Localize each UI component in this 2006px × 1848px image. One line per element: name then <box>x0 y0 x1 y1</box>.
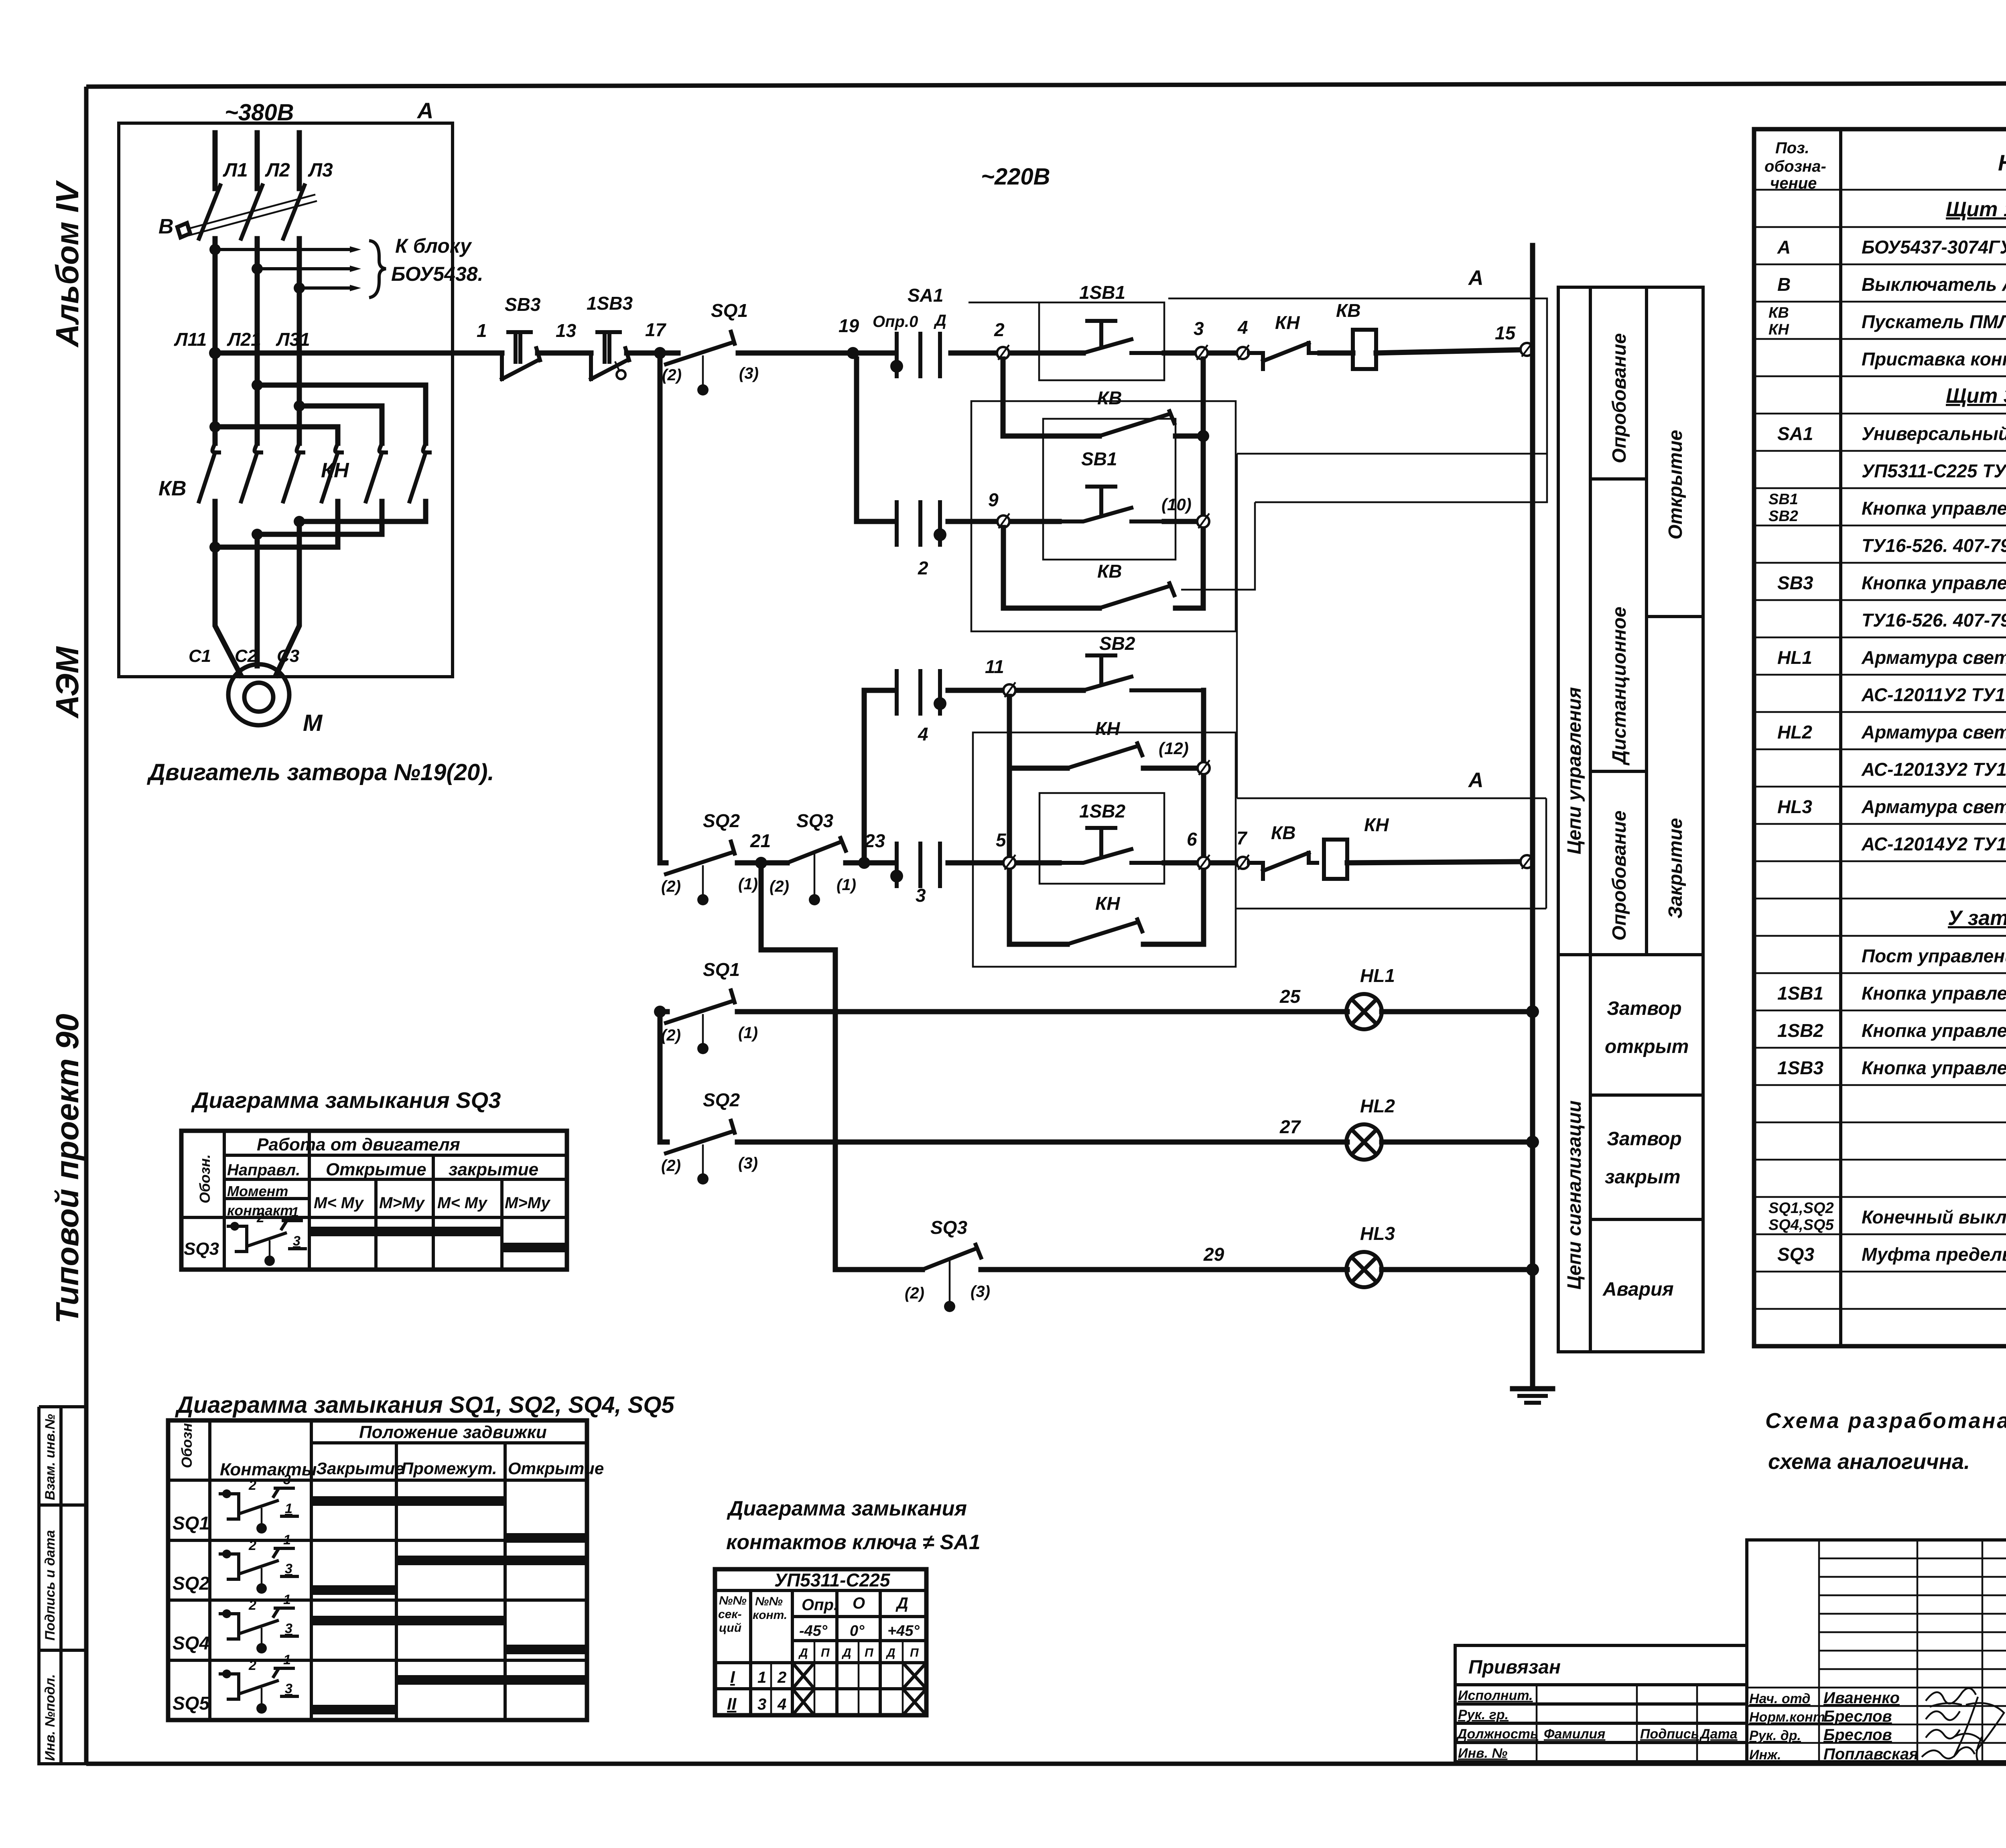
svg-text:Бреслов: Бреслов <box>1823 1708 1892 1725</box>
svg-text:3: 3 <box>285 1561 292 1576</box>
crossover wire phase3 to KN <box>299 406 382 443</box>
svg-text:чение: чение <box>1770 174 1817 192</box>
svg-text:SQ2: SQ2 <box>703 810 740 831</box>
limit switch SQ2 (signal) <box>666 1121 735 1153</box>
svg-text:25: 25 <box>1279 986 1301 1007</box>
svg-text:Двигатель затвора №19(20).: Двигатель затвора №19(20). <box>146 759 494 785</box>
svg-text:~220В: ~220В <box>981 164 1050 190</box>
SQ3 closed bar 2 <box>502 1243 567 1252</box>
svg-text:(1): (1) <box>837 876 856 894</box>
circuit classification box <box>1558 287 1703 1352</box>
contactor KN contact 1 <box>322 443 342 501</box>
svg-text:27: 27 <box>1279 1116 1301 1137</box>
svg-text:3: 3 <box>757 1696 766 1713</box>
wire SQ1 to node19 <box>738 351 893 356</box>
circuit breaker B contact 2 <box>241 185 262 239</box>
closing rung from VL1 <box>660 353 666 863</box>
power section enclosure box <box>119 123 453 677</box>
signal rung HL2 from VL1 <box>660 1012 667 1142</box>
svg-text:Авария: Авария <box>1602 1279 1674 1300</box>
SQ4 contact glyph <box>222 1609 231 1618</box>
pushbutton SB3 <box>502 332 540 379</box>
svg-text:(3): (3) <box>738 1154 758 1172</box>
svg-text:Подпись: Подпись <box>1640 1726 1699 1742</box>
junction dot crossover 1 <box>209 421 221 432</box>
pushbutton 1SB3 <box>591 332 629 379</box>
svg-text:Взам. инв.№: Взам. инв.№ <box>43 1414 58 1500</box>
svg-text:УП5311-С225 ТУ16-524. 074: УП5311-С225 ТУ16-524. 074-75 <box>1862 460 2006 481</box>
svg-text:3: 3 <box>1194 318 1204 339</box>
svg-text:Положение задвижки: Положение задвижки <box>359 1422 547 1442</box>
svg-text:контактов ключа ≠ SА1: контактов ключа ≠ SА1 <box>726 1531 981 1554</box>
svg-text:КВ: КВ <box>1271 822 1296 843</box>
tap wire 2 to BOU5438 <box>257 267 350 270</box>
svg-text:В: В <box>1777 274 1791 295</box>
component table row lines <box>1754 190 2006 1309</box>
svg-text:Затвор: Затвор <box>1607 1128 1682 1150</box>
svg-text:29: 29 <box>1203 1244 1224 1265</box>
svg-text:А: А <box>1777 237 1791 258</box>
svg-text:3: 3 <box>293 1233 300 1249</box>
wire 1SB2 to node6 node7 <box>1164 860 1240 866</box>
junction dot L11 node <box>209 347 221 359</box>
svg-text:КН: КН <box>1095 893 1120 914</box>
drawing frame top border <box>86 83 2006 87</box>
pushbutton SB2 <box>1083 655 1204 690</box>
svg-text:Должность: Должность <box>1456 1726 1538 1742</box>
pushbutton 1SB2 <box>1059 828 1164 863</box>
svg-text:+45°: +45° <box>887 1623 920 1639</box>
svg-text:Исполнит.: Исполнит. <box>1458 1688 1533 1703</box>
svg-text:ций: ций <box>719 1621 741 1635</box>
svg-text:6: 6 <box>1187 829 1197 850</box>
svg-text:П: П <box>865 1646 874 1659</box>
svg-text:М< Му: М< Му <box>314 1194 364 1212</box>
contactor KV contact 1 <box>199 443 219 501</box>
node 5 terminal circle <box>1003 857 1015 869</box>
svg-text:2: 2 <box>248 1478 256 1493</box>
svg-text:Подпись и дата: Подпись и дата <box>43 1530 58 1641</box>
svg-text:Типовой проект 90: Типовой проект 90 <box>49 1014 85 1324</box>
wire SB2 branch left riser <box>864 690 893 863</box>
motor feed wire C3 <box>276 521 299 675</box>
svg-text:SQ3: SQ3 <box>796 810 833 831</box>
svg-text:SQ3: SQ3 <box>930 1217 967 1238</box>
svg-text:Инв. №: Инв. № <box>1458 1746 1507 1761</box>
svg-text:SQ1: SQ1 <box>711 300 748 321</box>
svg-text:3: 3 <box>916 885 926 906</box>
svg-text:Диаграмма замыкания: Диаграмма замыкания <box>727 1497 967 1520</box>
svg-text:SQ1: SQ1 <box>703 959 740 980</box>
SA1 key X mark <box>903 1663 926 1689</box>
svg-text:Поз.: Поз. <box>1775 139 1809 157</box>
svg-text:Открытие: Открытие <box>326 1160 426 1179</box>
svg-text:БОУ5438.: БОУ5438. <box>391 263 483 285</box>
svg-text:А: А <box>416 98 433 123</box>
svg-text:4: 4 <box>1237 317 1248 338</box>
svg-text:21: 21 <box>750 830 771 851</box>
svg-text:Муфта предельного момента: Муфта предельного момента <box>1862 1244 2006 1265</box>
node 11 terminal circle <box>1003 684 1015 696</box>
thin wire A-link vertical <box>1236 454 1238 798</box>
coil KV <box>1353 330 1376 369</box>
svg-text:1SB3: 1SB3 <box>1777 1057 1823 1078</box>
svg-text:(1): (1) <box>738 1024 758 1042</box>
svg-text:О: О <box>853 1594 865 1612</box>
svg-text:(10): (10) <box>1161 495 1192 514</box>
tap wire 3 to BOU5438 <box>299 286 350 290</box>
post box around 1SB2 <box>1040 793 1164 884</box>
svg-text:конт.: конт. <box>753 1609 787 1622</box>
svg-text:3: 3 <box>285 1681 292 1696</box>
circuit breaker B contact 3 <box>283 185 305 239</box>
svg-text:Промежут.: Промежут. <box>401 1459 497 1478</box>
wire SQ3 to node 23 and SA1-3 <box>846 860 893 866</box>
svg-text:0°: 0° <box>850 1623 865 1639</box>
svg-text:Открытие: Открытие <box>508 1459 604 1478</box>
NC contact KN (rung1) <box>1249 343 1320 369</box>
svg-text:П: П <box>821 1646 830 1659</box>
svg-text:Рук. гр.: Рук. гр. <box>1458 1707 1509 1722</box>
circuit breaker B handle <box>177 223 190 237</box>
svg-text:SQ4,SQ5: SQ4,SQ5 <box>1768 1217 1834 1233</box>
SQ1245 diagram table <box>168 1420 587 1720</box>
svg-text:Схема разработана для з: Схема разработана для затвора №19, для з… <box>1765 1409 2006 1433</box>
svg-text:БОУ5437-3074ГУХЛ4А: БОУ5437-3074ГУХЛ4А <box>1862 237 2006 258</box>
svg-text:Закрытие: Закрытие <box>316 1459 404 1478</box>
svg-text:SQ2: SQ2 <box>703 1089 740 1110</box>
svg-text:Фамилия: Фамилия <box>1544 1726 1605 1742</box>
SQ5 bar mid+open <box>396 1675 587 1685</box>
tap wire 2 arrowhead <box>350 266 361 272</box>
svg-text:HL1: HL1 <box>1777 647 1812 668</box>
tap wire 3 arrowhead <box>350 285 361 291</box>
wire 1SB1 to node3 <box>1164 351 1240 356</box>
svg-text:1SB3: 1SB3 <box>587 293 633 314</box>
svg-text:1SB1: 1SB1 <box>1079 282 1125 303</box>
SQ1 bar closed+mid <box>311 1496 505 1506</box>
svg-text:19: 19 <box>839 315 859 336</box>
svg-text:Арматура светосигнальная: Арматура светосигнальная <box>1861 796 2006 817</box>
SA1 contact3 state dot <box>890 870 903 882</box>
svg-text:Цепи управления: Цепи управления <box>1564 687 1585 854</box>
wire SB1 to node10 <box>1164 519 1196 524</box>
outer thin box SB1 group <box>971 401 1236 631</box>
junction dot bus HL2 <box>1526 1136 1539 1148</box>
svg-text:А: А <box>1468 266 1484 290</box>
svg-text:II: II <box>727 1694 737 1713</box>
svg-text:М>Му: М>Му <box>379 1194 425 1212</box>
drawing frame bottom border <box>86 1762 2006 1766</box>
KV holding contact lower <box>1099 583 1174 608</box>
svg-text:Затвор: Затвор <box>1607 998 1682 1019</box>
wire phase 2 vertical <box>255 239 260 443</box>
main bus vertical A <box>1530 245 1535 1389</box>
svg-text:(3): (3) <box>739 365 759 382</box>
limit switch SQ2 (closing rung) <box>666 842 735 874</box>
svg-text:Арматура светосигнальная: Арматура светосигнальная <box>1861 647 2006 668</box>
svg-text:Кнопка управления КУГФ, К, 2: Кнопка управления КУГФ, К, 2Р „стоп“ <box>1862 1057 2006 1078</box>
phase stub L2 <box>255 133 260 189</box>
svg-text:КВ: КВ <box>158 477 187 500</box>
svg-text:Момент: Момент <box>227 1183 288 1199</box>
KN collector wire 3 <box>215 501 338 547</box>
SQ5 contact glyph <box>222 1669 231 1678</box>
wire 1SB3 to SQ1 <box>627 351 678 356</box>
svg-text:2: 2 <box>777 1669 786 1686</box>
wire KN holding branch lower <box>1009 942 1204 947</box>
svg-text:9: 9 <box>988 489 999 510</box>
svg-text:HL3: HL3 <box>1777 796 1812 817</box>
KN holding contact lower <box>1067 919 1142 944</box>
wire node19 dropper to SA1-2 <box>857 359 893 521</box>
svg-text:23: 23 <box>864 830 885 851</box>
node (12) terminal circle <box>1198 762 1210 774</box>
svg-text:7: 7 <box>1236 828 1248 848</box>
svg-text:КН: КН <box>1364 814 1389 835</box>
svg-text:КН: КН <box>1095 718 1120 739</box>
svg-text:1: 1 <box>285 1501 292 1516</box>
lamp HL3 <box>1346 1252 1382 1287</box>
svg-text:2: 2 <box>994 319 1005 340</box>
cam switch SA1 contact 4 bars <box>897 671 940 714</box>
pushbutton SB1 <box>1059 487 1164 521</box>
svg-text:SB1: SB1 <box>1768 491 1798 508</box>
junction dot collector 1 <box>294 516 305 527</box>
svg-text:ТУ16-526. 407-79: ТУ16-526. 407-79 <box>1862 535 2006 556</box>
svg-text:1: 1 <box>477 320 487 341</box>
wire SQ1 to lamp HL1 <box>737 1009 1347 1014</box>
svg-text:1: 1 <box>283 1652 291 1667</box>
phase stub L3 <box>297 133 302 189</box>
svg-text:Опробование: Опробование <box>1609 333 1630 463</box>
svg-text:1SB2: 1SB2 <box>1777 1020 1823 1041</box>
cam switch SA1 contact 3 bars <box>897 844 940 886</box>
node 6 terminal circle <box>1198 857 1210 869</box>
junction dot KV-upper to riser <box>1197 430 1209 442</box>
svg-text:схема аналогична.: схема аналогична. <box>1768 1450 1970 1474</box>
svg-text:Д: Д <box>841 1646 851 1659</box>
svg-text:(2): (2) <box>661 1026 681 1044</box>
motor M inner circle <box>244 683 273 712</box>
SQ4 bar closed+mid <box>311 1616 505 1625</box>
svg-text:1SB1: 1SB1 <box>1777 983 1823 1004</box>
svg-text:(2): (2) <box>661 1157 681 1175</box>
SQ5 bar closed <box>311 1705 396 1714</box>
svg-text:Выключатель АЕ2026-10УЗ: Выключатель АЕ2026-10УЗ <box>1862 274 2006 295</box>
svg-text:3: 3 <box>283 1472 291 1487</box>
drawing frame left border <box>84 87 89 1764</box>
svg-text:Обозн.: Обозн. <box>197 1154 213 1203</box>
junction dot collector 3 <box>209 542 221 553</box>
contactor KN contact 2 <box>366 443 386 501</box>
svg-text:SB3: SB3 <box>1777 572 1813 593</box>
junction dot VL1 at HL1 rung <box>654 1006 666 1018</box>
svg-text:Контакты: Контакты <box>220 1460 317 1479</box>
closing rung bus terminal circle <box>1521 855 1533 868</box>
thin box closing right sides <box>1236 798 1546 909</box>
limit switch SQ3 (closing rung) <box>787 838 846 863</box>
thin wire A-link horizontal <box>1237 453 1547 455</box>
svg-text:Закрытие: Закрытие <box>1665 818 1686 919</box>
contactor KV contact 2 <box>241 443 261 501</box>
junction dot bus HL3 <box>1526 1263 1539 1276</box>
svg-text:Д: Д <box>934 312 946 329</box>
SA1 key X mark <box>792 1689 814 1715</box>
svg-text:Пускатель ПМЛ 150104: Пускатель ПМЛ 150104 <box>1862 311 2006 332</box>
coil KN <box>1324 840 1347 879</box>
svg-text:У затвора: У затвора <box>1948 907 2006 930</box>
wire HL1 to bus <box>1382 1009 1533 1014</box>
svg-text:Л3: Л3 <box>308 160 333 181</box>
limit switch SQ1 (signal) <box>666 990 735 1023</box>
svg-text:(3): (3) <box>971 1283 990 1300</box>
svg-text:2: 2 <box>248 1658 256 1673</box>
svg-text:SA1: SA1 <box>908 285 943 306</box>
svg-text:Наименование: Наименование <box>1998 150 2006 175</box>
tap wire 1 arrowhead <box>350 246 361 253</box>
svg-text:КВ: КВ <box>1768 304 1789 321</box>
svg-text:КВ: КВ <box>1097 387 1122 408</box>
wire SA1-3 to node5 <box>948 860 1059 866</box>
svg-text:КН: КН <box>1275 312 1300 333</box>
junction dot collector 2 <box>252 529 263 540</box>
svg-text:SB2: SB2 <box>1099 633 1135 654</box>
1SB3 release circle <box>617 370 625 379</box>
wire SA1-2 to node9 <box>948 519 1059 524</box>
tap wire 1 to BOU5438 <box>215 248 350 251</box>
wire SQ2 to lamp HL2 <box>737 1140 1347 1145</box>
crossover wire phase2 to KN <box>257 385 426 443</box>
svg-text:Л11: Л11 <box>174 329 207 350</box>
signature squiggles <box>1926 1688 1976 1707</box>
crossover wire phase1 to KN <box>215 427 338 443</box>
contactor KV contact 3 <box>283 443 303 501</box>
svg-text:Кнопка управления КЕ-011УЗ: Кнопка управления КЕ-011УЗ исп.5 <box>1862 572 2006 593</box>
svg-text:Альбом IV: Альбом IV <box>49 180 85 348</box>
svg-text:П: П <box>910 1646 919 1659</box>
SQ1 actuator dropper <box>702 355 704 385</box>
wire SA1 to node2 <box>951 351 1040 356</box>
svg-text:(1): (1) <box>738 875 758 893</box>
svg-text:Иваненко: Иваненко <box>1823 1689 1900 1707</box>
svg-text:М< Му: М< Му <box>437 1194 488 1212</box>
lamp HL2 <box>1346 1124 1382 1160</box>
svg-text:АС-12014У2 ТУ16-535.930-: АС-12014У2 ТУ16-535.930-76 <box>1861 834 2006 854</box>
KN collector wire 2 <box>257 501 382 534</box>
svg-text:Универсальный переключатель: Универсальный переключатель <box>1862 423 2006 444</box>
svg-text:сек-: сек- <box>718 1608 742 1621</box>
svg-text:(2): (2) <box>662 366 682 384</box>
SQ2 contact glyph <box>222 1550 231 1558</box>
svg-text:Л31: Л31 <box>276 329 310 350</box>
svg-text:-45°: -45° <box>799 1623 828 1639</box>
svg-text:SQ3: SQ3 <box>1777 1244 1814 1265</box>
svg-text:3: 3 <box>285 1621 292 1636</box>
svg-text:HL3: HL3 <box>1360 1223 1395 1244</box>
component table outline <box>1754 129 2006 1346</box>
svg-text:(2): (2) <box>770 878 789 895</box>
svg-text:HL2: HL2 <box>1360 1095 1395 1116</box>
svg-text:Л2: Л2 <box>265 160 290 181</box>
SA1 key X mark <box>792 1663 814 1689</box>
svg-text:11: 11 <box>985 656 1004 677</box>
svg-text:SQ2: SQ2 <box>173 1573 209 1594</box>
svg-text:2: 2 <box>918 558 928 578</box>
svg-text:АС-12013У2 ТУ16-535.930-7: АС-12013У2 ТУ16-535.930-76 <box>1861 759 2006 780</box>
svg-text:Опр.: Опр. <box>802 1596 838 1614</box>
circuit breaker B contact 1 <box>199 185 220 239</box>
svg-text:Диаграмма замыкания SQ1, SQ2,: Диаграмма замыкания SQ1, SQ2, SQ4, SQ5 <box>175 1392 674 1418</box>
svg-text:Щит 1Щ. Панель 5: Щит 1Щ. Панель 5 <box>1946 198 2006 221</box>
svg-text:Конечный выключатель: Конечный выключатель <box>1862 1207 2006 1227</box>
cam switch SA1 contact 2 bars <box>897 502 940 545</box>
svg-text:Диаграмма замыкания SQ3: Диаграмма замыкания SQ3 <box>191 1087 501 1113</box>
junction dot crossover 2 <box>252 379 263 391</box>
outer box closing group <box>973 732 1236 967</box>
svg-text:~380В: ~380В <box>225 99 294 126</box>
svg-text:КВ: КВ <box>1336 300 1361 321</box>
svg-text:SB3: SB3 <box>505 294 541 315</box>
pushbutton 1SB1 <box>1083 321 1164 353</box>
title block signature grid <box>1747 1540 2006 1762</box>
junction dot tap2 <box>252 263 263 274</box>
KV holding contact upper <box>1099 411 1174 436</box>
svg-text:КВ: КВ <box>1097 561 1122 582</box>
wire phase 3 vertical <box>297 239 302 443</box>
svg-text:1: 1 <box>283 1532 291 1548</box>
svg-text:С3: С3 <box>277 646 299 666</box>
svg-text:Цепи сигнализации: Цепи сигнализации <box>1564 1100 1585 1290</box>
svg-text:Поплавская: Поплавская <box>1823 1745 1919 1763</box>
SQ1 contact glyph <box>222 1489 231 1498</box>
KN holding contact upper <box>1067 743 1142 768</box>
SQ1 bar open <box>505 1533 587 1543</box>
svg-text:М: М <box>303 710 323 736</box>
contactor KN contact 3 <box>410 443 430 501</box>
junction dot bus HL1 <box>1526 1005 1539 1018</box>
svg-text:ТУ16-526. 407-79: ТУ16-526. 407-79 <box>1862 610 2006 631</box>
svg-text:1SB2: 1SB2 <box>1079 801 1125 822</box>
SA1 contact4 state dot <box>934 697 946 710</box>
svg-text:I: I <box>730 1667 735 1686</box>
post box around SB1 <box>1043 419 1176 560</box>
junction dot node 21 <box>755 857 767 869</box>
svg-text:А: А <box>1468 769 1484 792</box>
svg-text:Опр.0: Опр.0 <box>873 313 918 331</box>
SQ3 diagram table <box>181 1131 567 1270</box>
svg-text:УП5311-С225: УП5311-С225 <box>774 1570 891 1590</box>
svg-text:Опробование: Опробование <box>1609 811 1630 941</box>
SQ4 bar open <box>505 1645 587 1654</box>
SA1 key X mark <box>903 1689 926 1715</box>
junction dot node 17 <box>654 347 666 359</box>
svg-text:HL2: HL2 <box>1777 722 1812 742</box>
wire KN holding branch upper <box>1009 766 1197 771</box>
node 2 terminal circle <box>997 347 1009 359</box>
junction dot node 19 <box>847 347 859 359</box>
svg-text:SQ3: SQ3 <box>184 1239 219 1259</box>
riser node3 down through (10) <box>1201 359 1206 608</box>
motor M outer circle <box>228 664 289 725</box>
signal rung HL1 from VL1 <box>660 1009 667 1014</box>
junction dot node 23 <box>858 857 870 869</box>
svg-text:В: В <box>158 215 174 238</box>
svg-text:АЭМ: АЭМ <box>49 646 85 719</box>
wire SQ3 to lamp HL3 <box>981 1267 1347 1272</box>
svg-text:Нач. отд: Нач. отд <box>1749 1691 1810 1706</box>
circuit breaker B crossbar <box>187 195 317 235</box>
